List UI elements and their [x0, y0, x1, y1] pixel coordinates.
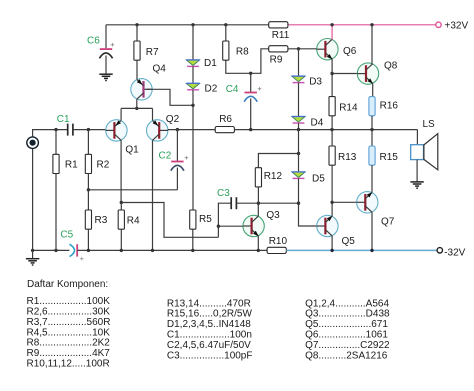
wire D2 down to R5 — [192, 90, 194, 210]
node +32V terminal — [436, 22, 441, 27]
wire R14 bottom — [331, 116, 333, 130]
svg-text:+: + — [80, 254, 85, 263]
wire R9 to Q6 base — [288, 48, 317, 50]
wire top supply rail (left of R11) — [106, 24, 269, 26]
wire C3 left to feedback node — [218, 203, 231, 237]
wire R2 to node — [87, 174, 89, 190]
wire R4 bottom lead — [120, 229, 122, 250]
transistor Q2 — [147, 120, 169, 141]
svg-text:R1: R1 — [65, 159, 78, 170]
wire Q3 base — [218, 225, 242, 227]
wire D5 to Q5 base — [299, 179, 317, 226]
wire Q4 base to diode chain — [146, 89, 193, 105]
junction Q8-rail — [370, 23, 373, 26]
svg-text:R4: R4 — [127, 216, 140, 227]
junction C4 bottom — [249, 128, 252, 131]
wire C3 right to D5 node — [236, 202, 298, 204]
resistor R4 — [118, 210, 124, 229]
wire Q2 emitter stub — [152, 108, 154, 120]
svg-text:R1.................100K: R1.................100K — [27, 296, 111, 307]
wire Q5 emitter to rail — [331, 236, 333, 251]
capacitor C2 — [171, 153, 189, 171]
wire R1 bottom lead — [55, 174, 57, 251]
junction R12-Dchain — [297, 152, 300, 155]
junction Q1 coll/R4 — [120, 201, 123, 204]
junction C2 top — [176, 128, 179, 131]
wire R7 top — [136, 25, 138, 41]
svg-text:R5: R5 — [199, 214, 212, 225]
svg-text:R2,6................30K: R2,6................30K — [27, 306, 111, 317]
wire ground stub — [32, 250, 34, 258]
svg-text:+: + — [184, 153, 189, 162]
wire R2 top lead — [87, 130, 89, 155]
transistor Q4 — [131, 79, 153, 100]
svg-text:R16: R16 — [380, 101, 399, 112]
junction R8-rail — [224, 23, 227, 26]
svg-text:Q5...................671: Q5...................671 — [305, 319, 388, 330]
wire R7 to Q4 — [136, 60, 138, 79]
svg-text:R2: R2 — [97, 159, 110, 170]
svg-text:D1: D1 — [204, 58, 217, 69]
resistor R1 — [53, 154, 59, 173]
svg-text:Q7...............C2922: Q7...............C2922 — [305, 340, 390, 351]
junction Q7 base — [330, 201, 333, 204]
svg-text:Q4: Q4 — [153, 64, 167, 75]
ground (C6) — [99, 74, 112, 80]
wire R13 to Q5 — [331, 165, 333, 216]
svg-text:R8...................2K2: R8...................2K2 — [27, 338, 111, 349]
svg-text:R11: R11 — [272, 30, 290, 41]
wire Q2 base to R6 — [168, 129, 215, 131]
wire Q3 collector up — [257, 203, 259, 216]
capacitor C3 — [231, 197, 236, 209]
svg-text:R15: R15 — [380, 152, 399, 163]
wire Q6 base node to D3 — [298, 49, 300, 76]
resistor R9 — [269, 46, 288, 52]
svg-text:Q1: Q1 — [125, 145, 139, 156]
capacitor C6 — [99, 40, 115, 58]
wire R1 top lead — [55, 130, 57, 155]
wire R4 top lead — [120, 203, 122, 211]
diode D1 — [186, 60, 200, 67]
junction Q5 bottom — [330, 249, 333, 252]
svg-text:R3,7..............560R: R3,7..............560R — [27, 317, 111, 328]
resistor R6 — [215, 127, 234, 133]
wire Q6 collector to +rail — [331, 25, 333, 40]
junction R14-R13 output — [330, 128, 333, 131]
svg-text:R13: R13 — [338, 152, 357, 163]
ground (main) — [26, 259, 39, 265]
svg-text:D4: D4 — [311, 117, 324, 128]
wire feedback run — [121, 203, 218, 238]
wire R15 to Q7 — [371, 165, 373, 192]
svg-text:C2: C2 — [159, 151, 172, 162]
junction D1-rail — [191, 23, 194, 26]
wire output to LS — [416, 130, 418, 145]
wire Q1 emitter stub — [120, 108, 122, 120]
svg-text:Q8..........2SA1216: Q8..........2SA1216 — [305, 350, 388, 361]
wire D3 to D4 — [298, 83, 300, 116]
junction Q3 base node — [217, 225, 220, 228]
svg-text:R9: R9 — [270, 54, 283, 65]
diode D5 — [292, 172, 306, 179]
svg-text:Q7: Q7 — [381, 217, 395, 228]
junction R9/D3/Q6 — [297, 47, 300, 50]
wire C2 bottom lead — [176, 168, 178, 190]
wire LS to ground — [416, 160, 418, 182]
junction R2 top — [87, 128, 90, 131]
svg-text:C5: C5 — [60, 230, 73, 241]
svg-text:C2,4,5,6.47uF/50V: C2,4,5,6.47uF/50V — [167, 340, 251, 351]
junction R4 bottom — [120, 249, 123, 252]
transistor Q3 — [243, 215, 265, 236]
svg-text:Q5: Q5 — [342, 236, 356, 247]
junction R3 bottom — [87, 249, 90, 252]
resistor R11 — [269, 22, 288, 28]
wire R3 bottom lead — [87, 229, 89, 250]
svg-text:Daftar Komponen:: Daftar Komponen: — [27, 279, 108, 290]
wire C4 bottom lead — [250, 99, 252, 130]
junction D2/Q4 base/R5 — [191, 104, 194, 107]
svg-text:Q6: Q6 — [343, 46, 357, 57]
svg-text:R12: R12 — [264, 171, 283, 182]
wire output line to LS — [234, 129, 417, 131]
svg-text:Q2: Q2 — [166, 114, 180, 125]
junction R2/R3/C2 — [87, 188, 90, 191]
svg-text:R10: R10 — [269, 236, 288, 247]
junction C4 top — [249, 72, 252, 75]
resistor R7 — [134, 41, 140, 60]
svg-text:C4: C4 — [226, 84, 239, 95]
wire rail to D1 — [192, 25, 194, 60]
svg-text:R4,5................10K: R4,5................10K — [27, 327, 111, 338]
diode D4 — [292, 117, 306, 124]
wire R3 top lead — [87, 190, 89, 210]
resistor R13 — [329, 146, 335, 165]
wire emitter join — [121, 107, 152, 109]
svg-text:Q6.................1061: Q6.................1061 — [305, 330, 388, 341]
svg-text:R14: R14 — [339, 103, 358, 114]
svg-text:-32V: -32V — [444, 247, 465, 258]
junction R1 bottom — [54, 249, 57, 252]
diode D2 — [186, 83, 200, 90]
svg-text:D2: D2 — [205, 84, 218, 95]
svg-text:R7: R7 — [146, 47, 159, 58]
wire C1 to Q1 base — [73, 129, 106, 131]
transistor Q5 — [317, 215, 338, 236]
wire bottom rail left — [33, 249, 70, 251]
resistor R12 — [255, 168, 261, 187]
wire Q3 emitter down — [257, 236, 259, 251]
svg-text:R6: R6 — [219, 114, 232, 125]
wire Q7 base — [332, 201, 356, 203]
wire node A horizontal — [88, 189, 177, 191]
wire R15 top — [371, 130, 373, 146]
node -32V terminal — [437, 248, 442, 253]
wire R5 top stub — [192, 209, 194, 211]
svg-text:C6: C6 — [87, 36, 100, 47]
svg-text:R9...................4K7: R9...................4K7 — [27, 348, 111, 359]
resistor R16 — [369, 97, 375, 116]
wire R12 top to diode chain — [258, 154, 298, 168]
wire Q8 base — [332, 73, 357, 75]
capacitor C5 — [70, 244, 85, 263]
wire C4 top lead — [250, 73, 252, 92]
resistor R3 — [85, 210, 91, 229]
loudspeaker LS box — [411, 145, 424, 160]
wire input ground drop — [32, 149, 34, 251]
svg-text:Q1,2,4...........A564: Q1,2,4...........A564 — [305, 298, 389, 309]
wire Q2 collector to rail — [152, 140, 154, 250]
junction Q6-rail — [330, 23, 333, 26]
wire input to C1 — [33, 130, 68, 137]
svg-text:Q8: Q8 — [384, 61, 398, 72]
svg-text:D1,2,3,4,5..IN4148: D1,2,3,4,5..IN4148 — [167, 319, 251, 330]
node input terminal — [27, 137, 39, 149]
transistor Q1 — [106, 120, 128, 141]
wire R5 bottom lead — [192, 229, 194, 250]
svg-text:C3................100pF: C3................100pF — [167, 350, 253, 361]
resistor R2 — [85, 154, 91, 173]
svg-text:R13,14..........470R: R13,14..........470R — [167, 298, 251, 309]
transistor Q7 — [357, 192, 378, 213]
svg-text:Q3: Q3 — [266, 210, 280, 221]
svg-text:R15,16.....0,2R/5W: R15,16.....0,2R/5W — [167, 309, 253, 320]
junction D5-C3 node — [297, 202, 300, 205]
resistor R8 — [223, 41, 229, 60]
resistor R5 — [190, 210, 196, 229]
ground (LS) — [410, 182, 423, 188]
wire R8 to R9 — [226, 49, 269, 74]
svg-text:C3: C3 — [217, 188, 230, 199]
loudspeaker LS cone — [424, 134, 438, 170]
junction R5 bottom — [191, 249, 194, 252]
wire C2 top lead — [176, 130, 178, 161]
capacitor C4 — [244, 84, 262, 102]
svg-text:R8: R8 — [236, 47, 249, 58]
wire C6 top — [105, 25, 107, 48]
junction R7-rail — [135, 23, 138, 26]
junction input ground — [31, 249, 34, 252]
wire R8 top — [225, 25, 227, 41]
junction Q7 bottom — [370, 249, 373, 252]
svg-text:Q3.................D438: Q3.................D438 — [305, 309, 390, 320]
wire R12 bottom — [257, 187, 259, 203]
wire D4 to D5 — [298, 123, 300, 171]
capacitor C1 — [68, 124, 73, 136]
svg-text:+: + — [257, 84, 262, 93]
wire D1 to D2 — [192, 67, 194, 83]
junction D4-D5 output tap — [297, 128, 300, 131]
diode D3 — [292, 76, 306, 83]
svg-text:LS: LS — [423, 119, 436, 130]
svg-text:+: + — [110, 40, 115, 49]
wire -32V rail — [286, 249, 437, 251]
svg-text:R3: R3 — [95, 215, 108, 226]
wire Q8 collector to rail — [371, 25, 373, 64]
svg-text:C1: C1 — [57, 114, 70, 125]
svg-text:D5: D5 — [312, 174, 325, 185]
wire Q8 emitter to R16 — [372, 84, 374, 97]
wire Q4 collector down — [136, 99, 138, 108]
wire bottom rail middle — [77, 249, 267, 251]
wire Q6 emitter down — [331, 59, 333, 97]
wire C6 to ground — [105, 56, 107, 74]
resistor R15 — [369, 146, 375, 165]
junction Q3 emitter bottom — [257, 249, 260, 252]
svg-text:C1..................100n: C1..................100n — [167, 330, 252, 341]
resistor R14 — [329, 97, 335, 116]
svg-text:+32V: +32V — [445, 21, 469, 32]
junction Q2 collector bottom — [151, 249, 154, 252]
junction R16-R15 output — [370, 128, 373, 131]
wire Q7 down to rail — [371, 212, 373, 250]
junction Q8 base — [330, 72, 333, 75]
transistor Q8 — [357, 63, 378, 84]
svg-text:D3: D3 — [309, 77, 322, 88]
junction Q1-Q2 emitters — [135, 107, 138, 110]
wire +32V rail (after R11) — [288, 24, 436, 26]
transistor Q6 — [317, 39, 338, 60]
svg-text:R10,11,12.....100R: R10,11,12.....100R — [27, 359, 110, 370]
junction R1 top — [54, 128, 57, 131]
wire Q1 collector down — [120, 140, 122, 202]
junction R12/Q3 collector/C3 — [257, 202, 260, 205]
wire R13 top — [331, 130, 333, 146]
resistor R10 — [267, 247, 286, 253]
wire R16 bottom — [371, 116, 373, 130]
